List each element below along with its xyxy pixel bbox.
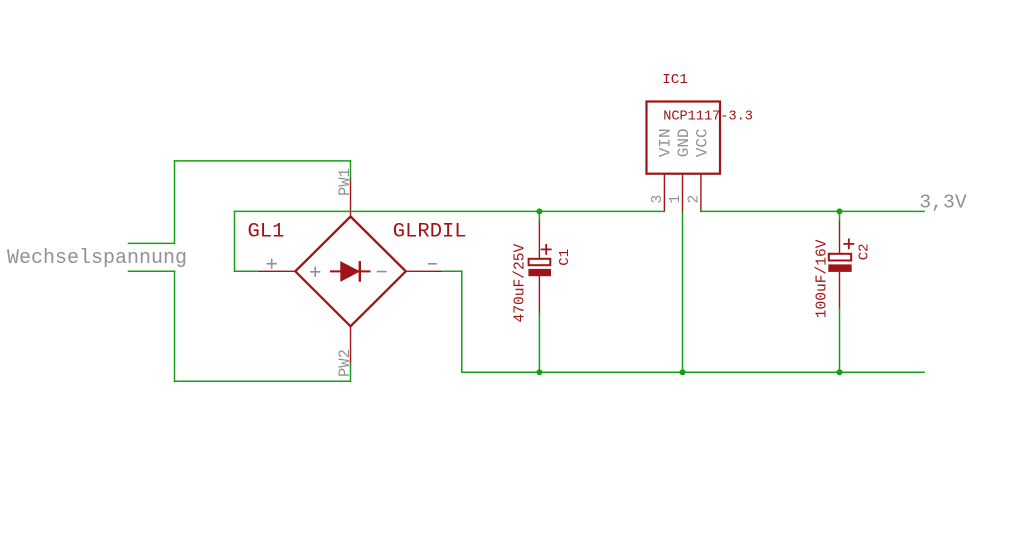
wire top rail right segment	[701, 210, 924, 212]
diode triangle	[341, 262, 359, 281]
wire plus-net horizontal to bridge	[235, 270, 258, 272]
svg-text:3: 3	[650, 195, 666, 204]
svg-text:IC1: IC1	[662, 72, 688, 88]
capacitor C1 bottom lead	[538, 276, 540, 313]
svg-text:PW2: PW2	[336, 349, 354, 377]
svg-text:VIN: VIN	[657, 128, 675, 157]
svg-text:GL1: GL1	[248, 221, 285, 244]
junction C2 top	[837, 208, 843, 214]
capacitor C1 top plate	[529, 259, 551, 265]
wire IC1 GND vertical	[682, 212, 684, 373]
wire to PW1	[350, 161, 352, 179]
wire minus-net horizontal	[443, 270, 462, 272]
pin name minus outside	[429, 263, 436, 265]
pin minus	[406, 270, 443, 272]
svg-text:GND: GND	[675, 128, 693, 157]
capacitor C2 bottom plate	[828, 264, 851, 272]
wire C1 bottom	[538, 313, 540, 372]
bridge rectifier GL1 diamond	[295, 217, 406, 327]
wire C2 top stub	[839, 211, 841, 220]
svg-text:3,3V: 3,3V	[919, 191, 967, 213]
capacitor C2 top lead	[839, 221, 841, 254]
capacitor C1 top lead	[538, 221, 540, 259]
capacitor C2 top plate	[829, 254, 851, 261]
pin name plus inside	[311, 268, 320, 277]
junction C1 top	[536, 208, 542, 214]
diode cathode bar	[359, 262, 361, 280]
wire AC bottom horizontal	[175, 380, 351, 382]
C1 plus mark	[542, 245, 551, 254]
svg-text:C2: C2	[856, 243, 872, 260]
wire from PW2	[350, 364, 352, 381]
wire bottom rail	[462, 371, 924, 373]
svg-text:VCC: VCC	[693, 128, 711, 157]
voltage regulator IC1 box	[647, 102, 721, 174]
C2 plus mark	[844, 239, 853, 248]
wire AC upper horizontal	[175, 160, 351, 162]
svg-text:C1: C1	[557, 249, 573, 266]
junction C1 bottom	[536, 369, 542, 375]
svg-text:470uF/25V: 470uF/25V	[513, 243, 529, 322]
pin PW2	[350, 326, 352, 364]
diode line	[331, 270, 370, 272]
pin PW1	[350, 179, 352, 217]
svg-text:GLRDIL: GLRDIL	[393, 221, 467, 244]
wire plus-net vertical	[234, 211, 236, 271]
svg-text:PW1: PW1	[336, 168, 354, 196]
wire AC upper-left vertical	[174, 161, 176, 244]
svg-text:100uF/16V: 100uF/16V	[814, 239, 830, 318]
svg-text:Wechselspannung: Wechselspannung	[7, 247, 187, 270]
pin 3 VIN stub	[663, 175, 665, 212]
wire top rail left segment	[235, 210, 665, 212]
pin 2 VCC stub	[700, 175, 702, 212]
capacitor C2 bottom lead	[839, 272, 841, 308]
wire AC upper stub	[129, 242, 175, 244]
junction GND bottom	[680, 369, 686, 375]
pin name plus outside	[267, 259, 276, 268]
pin plus	[258, 270, 295, 272]
wire C1 top stub	[538, 211, 540, 220]
pin 1 GND stub	[682, 175, 684, 212]
pin name minus inside	[378, 271, 387, 273]
svg-text:2: 2	[687, 195, 703, 204]
svg-text:NCP1117-3.3: NCP1117-3.3	[663, 109, 753, 124]
wire minus-net vertical	[461, 271, 463, 372]
wire AC lower-left vertical	[174, 271, 176, 381]
wire C2 bottom	[839, 308, 841, 372]
capacitor C1 bottom plate	[528, 269, 551, 276]
wire AC lower stub	[129, 270, 175, 272]
junction C2 bottom	[837, 369, 843, 375]
svg-text:1: 1	[668, 195, 684, 204]
